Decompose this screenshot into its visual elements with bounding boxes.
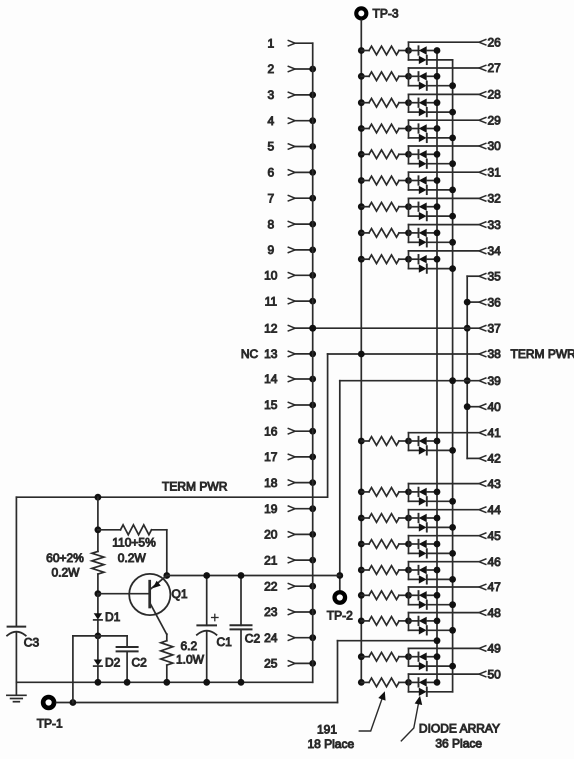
junction: ground rail xyxy=(203,679,210,686)
terminator row pin 30 xyxy=(358,146,479,168)
svg-text:39: 39 xyxy=(488,374,502,388)
diode (upper) row 43 xyxy=(409,491,418,493)
resistor 191 network, row 32 xyxy=(361,206,369,208)
svg-text:1: 1 xyxy=(267,36,274,50)
pin 19 (connector pin 19, left) xyxy=(264,502,316,516)
junction: lower rail row 32 xyxy=(449,213,456,220)
label DIODE ARRAY 36 Place callout xyxy=(401,700,500,751)
diode (lower) row 29 xyxy=(409,137,419,139)
svg-text:32: 32 xyxy=(488,192,502,206)
junction: ground rail xyxy=(163,679,170,686)
svg-text:27: 27 xyxy=(488,61,502,75)
resistor 191 network, row 50 xyxy=(361,681,369,683)
junction: ground rail xyxy=(95,679,102,686)
junction: upper rail row 46 xyxy=(434,567,441,574)
wire: pin 12 to pin 37 ground link xyxy=(295,327,479,329)
pin 45 (connector pin 45, right) xyxy=(479,529,501,543)
svg-text:41: 41 xyxy=(488,426,502,440)
resistor 191 network, row 28 xyxy=(361,102,369,104)
junction: lower rail row 44 xyxy=(449,524,456,531)
junction: TP-1 run / D1-D2 branch xyxy=(70,699,77,706)
wire: node to pin 26 xyxy=(409,41,480,43)
svg-text:D1: D1 xyxy=(105,610,121,624)
svg-text:6: 6 xyxy=(267,166,274,180)
svg-text:23: 23 xyxy=(264,605,278,619)
transistor Q1 (PNP) xyxy=(98,574,188,635)
svg-text:46: 46 xyxy=(488,555,502,569)
capacitor C3 xyxy=(7,497,39,682)
svg-text:17: 17 xyxy=(264,450,278,464)
wire: regulator output line xyxy=(167,575,340,577)
diode (upper) row 33 xyxy=(409,232,418,234)
pin 20 (connector pin 20, left) xyxy=(264,528,316,542)
terminator row pin 34 xyxy=(358,251,479,273)
junction: lower rail row 28 xyxy=(449,109,456,116)
wire: node to pin 34 xyxy=(409,250,480,252)
svg-text:0.2W: 0.2W xyxy=(118,551,147,565)
terminator row pin 47 xyxy=(358,587,479,609)
capacitor C2 (left) xyxy=(117,636,148,682)
junction: lower rail / pin 39 xyxy=(449,377,456,384)
svg-text:35: 35 xyxy=(488,269,502,283)
svg-text:31: 31 xyxy=(488,165,502,179)
svg-text:4: 4 xyxy=(267,114,274,128)
pin 4 (connector pin 4, left) xyxy=(267,114,316,128)
wire: pin 39 to TP-2 branch xyxy=(340,380,479,382)
diode (lower) row 33 xyxy=(409,241,419,243)
diode (upper) row 28 xyxy=(409,102,418,104)
wire: resistor to base node xyxy=(97,574,99,594)
node: terminator node row 27 xyxy=(405,73,412,80)
wire: node to pin 33 xyxy=(409,224,480,226)
wire: node to pin 27 xyxy=(409,67,480,69)
pin 42 (connector pin 42, right) xyxy=(479,452,501,466)
pin 17 (connector pin 17, left) xyxy=(264,450,316,464)
pin 35 (connector pin 35, right) xyxy=(479,269,501,283)
pin 30 (connector pin 30, right) xyxy=(479,139,501,153)
wire: TERM PWR drop to regulator xyxy=(16,354,327,497)
wire: node to pin 43 xyxy=(409,483,480,485)
svg-text:36: 36 xyxy=(488,295,502,309)
resistor 191 network, row 26 xyxy=(361,50,369,52)
junction: emitter/output node xyxy=(163,572,170,579)
wire: ground run riser xyxy=(337,641,339,703)
test point TP-3 xyxy=(356,7,399,21)
junction: upper rail row 26 xyxy=(434,47,441,54)
diode (lower) row 47 xyxy=(409,604,419,606)
junction: diode rail / ground run xyxy=(434,637,441,644)
diode (upper) row 34 xyxy=(409,258,418,260)
junction: lower rail row 41 xyxy=(449,447,456,454)
terminator row pin 50 xyxy=(358,674,479,696)
leader arrowhead to diode array xyxy=(416,697,422,704)
junction: TERM PWR feed bus / pin 38 xyxy=(358,351,365,358)
junction: lower rail row 47 xyxy=(449,601,456,608)
terminator row pin 26 xyxy=(358,42,479,64)
wire: D1-D2 junction to TP-1 run xyxy=(72,636,74,703)
svg-text:60+2%: 60+2% xyxy=(46,551,84,565)
pin 9 (connector pin 9, left) xyxy=(267,243,316,257)
pin 22 (connector pin 22, left) xyxy=(264,579,316,593)
node: terminator node row 43 xyxy=(405,489,412,496)
pin 38 (connector pin 38, right) xyxy=(479,347,574,361)
junction: bus / pin 40 xyxy=(464,403,471,410)
resistor 191 network, row 27 xyxy=(361,75,369,77)
svg-text:5: 5 xyxy=(267,140,274,154)
resistor 6.2 1.0W xyxy=(161,634,205,682)
wire: pin 40 stub xyxy=(467,406,479,408)
junction: upper rail row 29 xyxy=(434,125,441,132)
svg-text:45: 45 xyxy=(488,529,502,543)
junction: feed bus row 49 xyxy=(358,653,365,660)
pin 24 (connector pin 24, left) xyxy=(264,631,316,645)
resistor 191 network, row 29 xyxy=(361,128,369,130)
svg-text:TP-2: TP-2 xyxy=(327,609,353,623)
pin 14 (connector pin 14, left) xyxy=(264,372,316,386)
junction: D1/D2 node xyxy=(95,633,102,640)
junction: regulator output / TP-2 branch xyxy=(336,572,343,579)
resistor 191 network, row 45 xyxy=(361,543,369,545)
node: terminator node row 33 xyxy=(405,230,412,237)
diode (lower) row 31 xyxy=(409,189,419,191)
capacitor C1 (polarized) xyxy=(197,576,232,683)
pin 28 (connector pin 28, right) xyxy=(479,88,501,102)
svg-text:43: 43 xyxy=(488,477,502,491)
node: terminator node row 26 xyxy=(405,47,412,54)
svg-text:NC: NC xyxy=(241,347,259,361)
junction: 110 ohm branch xyxy=(95,526,102,533)
svg-text:22: 22 xyxy=(264,579,278,593)
svg-text:DIODE ARRAY: DIODE ARRAY xyxy=(419,722,500,736)
junction: upper rail row 28 xyxy=(434,99,441,106)
svg-text:44: 44 xyxy=(488,503,502,517)
diode (upper) row 30 xyxy=(409,153,418,155)
node: terminator node row 31 xyxy=(405,177,412,184)
junction: lower rail row 43 xyxy=(449,498,456,505)
pin 37 (connector pin 37, right) xyxy=(479,321,501,335)
svg-text:38: 38 xyxy=(488,347,502,361)
junction: feed bus row 47 xyxy=(358,592,365,599)
pin 48 (connector pin 48, right) xyxy=(479,606,501,620)
junction: upper rail row 47 xyxy=(434,592,441,599)
diode (lower) row 50 xyxy=(409,691,419,693)
test point TP-1 xyxy=(37,697,63,731)
svg-text:11: 11 xyxy=(265,294,278,308)
wire: pin 35 stub xyxy=(467,275,479,277)
wire: node to pin 48 xyxy=(409,612,480,614)
svg-text:36 Place: 36 Place xyxy=(435,737,482,751)
wire: TP-1 ground run xyxy=(56,702,337,704)
pin 46 (connector pin 46, right) xyxy=(479,555,501,569)
svg-text:48: 48 xyxy=(488,606,502,620)
pin 6 (connector pin 6, left) xyxy=(267,166,316,180)
svg-text:Q1: Q1 xyxy=(172,587,188,601)
junction: lower rail row 45 xyxy=(449,550,456,557)
junction: upper rail row 30 xyxy=(434,151,441,158)
wire: pin 36 stub xyxy=(467,301,479,303)
terminator row pin 28 xyxy=(358,94,479,116)
terminator row pin 31 xyxy=(358,172,479,194)
terminator row pin 29 xyxy=(358,120,479,142)
pin 33 (connector pin 33, right) xyxy=(479,218,501,232)
leader arrowhead to resistor network xyxy=(379,692,385,700)
svg-text:3: 3 xyxy=(267,88,274,102)
junction: feed bus row 45 xyxy=(358,541,365,548)
svg-text:24: 24 xyxy=(264,631,278,645)
resistor 191 network, row 49 xyxy=(361,656,369,658)
pin 16 (connector pin 16, left) xyxy=(264,424,316,438)
junction: upper rail row 27 xyxy=(434,73,441,80)
wire: 110 ohm to emitter node xyxy=(166,530,168,576)
diode (lower) row 32 xyxy=(409,215,419,217)
terminator row pin 43 xyxy=(358,484,479,506)
svg-text:42: 42 xyxy=(488,452,502,466)
wire: pin 42 stub xyxy=(467,457,479,459)
junction: feed bus row 31 xyxy=(358,177,365,184)
junction: feed bus row 27 xyxy=(358,73,365,80)
resistor 110+5% 0.2W xyxy=(98,525,167,565)
node: terminator node row 29 xyxy=(405,125,412,132)
wire: node to pin 44 xyxy=(409,509,480,511)
node: terminator node row 46 xyxy=(405,567,412,574)
pin 13 (connector pin 13, left) xyxy=(241,347,316,361)
wire: divider branch vertical xyxy=(97,497,99,551)
svg-text:TERM PWR: TERM PWR xyxy=(511,347,574,361)
diode (lower) row 45 xyxy=(409,552,419,554)
wire: D1 to junction xyxy=(97,620,99,636)
terminator row pin 48 xyxy=(358,613,479,635)
pin 21 (connector pin 21, left) xyxy=(264,553,316,567)
diode (upper) row 26 xyxy=(409,50,418,52)
wire: D2 to ground rail xyxy=(97,666,99,682)
resistor 191 network, row 46 xyxy=(361,569,369,571)
svg-text:14: 14 xyxy=(264,372,278,386)
diode D1 xyxy=(94,594,121,624)
pin 1 (connector pin 1, left) xyxy=(267,36,312,50)
junction: output / C1 xyxy=(203,572,210,579)
junction: lower rail row 29 xyxy=(449,135,456,142)
node: terminator node row 49 xyxy=(405,653,412,660)
svg-text:1.0W: 1.0W xyxy=(176,653,205,667)
svg-text:7: 7 xyxy=(267,191,274,205)
junction: lower rail row 31 xyxy=(449,187,456,194)
pin 26 (connector pin 26, right) xyxy=(479,35,501,49)
svg-text:2: 2 xyxy=(267,62,274,76)
diode (lower) row 48 xyxy=(409,629,419,631)
svg-text:20: 20 xyxy=(264,528,278,542)
junction: upper rail row 33 xyxy=(434,230,441,237)
svg-text:18: 18 xyxy=(264,476,278,490)
junction: ground rail xyxy=(124,679,131,686)
diode (upper) row 29 xyxy=(409,128,418,130)
diode D2 xyxy=(94,636,121,670)
wire: node to pin 28 xyxy=(409,93,480,95)
diode (upper) row 27 xyxy=(409,75,418,77)
svg-text:D2: D2 xyxy=(105,656,121,670)
svg-text:50: 50 xyxy=(488,667,502,681)
junction: feed bus row 50 xyxy=(358,679,365,686)
junction: upper rail row 49 xyxy=(434,653,441,660)
diode (lower) row 27 xyxy=(409,85,419,87)
pin 23 (connector pin 23, left) xyxy=(264,605,316,619)
diode (lower) row 43 xyxy=(409,500,419,502)
resistor 191 network, row 41 xyxy=(361,440,369,442)
terminator row pin 33 xyxy=(358,225,479,247)
diode (upper) row 50 xyxy=(409,681,418,683)
svg-text:0.2W: 0.2W xyxy=(51,565,80,579)
junction: bus / pin 36 xyxy=(464,299,471,306)
node: terminator node row 34 xyxy=(405,256,412,263)
pin 3 (connector pin 3, left) xyxy=(267,88,316,102)
svg-text:191: 191 xyxy=(317,723,337,737)
svg-text:110+5%: 110+5% xyxy=(112,535,156,549)
junction: feed bus row 32 xyxy=(358,203,365,210)
svg-text:6.2: 6.2 xyxy=(181,639,198,653)
junction: feed bus row 34 xyxy=(358,256,365,263)
wire: node to pin 49 xyxy=(409,647,480,649)
resistor 191 network, row 34 xyxy=(361,258,369,260)
svg-text:C2: C2 xyxy=(245,631,261,645)
pin 29 (connector pin 29, right) xyxy=(479,113,501,127)
resistor 191 network, row 33 xyxy=(361,232,369,234)
junction: feed bus row 26 xyxy=(358,47,365,54)
junction: bus / pin 39 xyxy=(464,377,471,384)
node: terminator node row 30 xyxy=(405,151,412,158)
resistor 191 network, row 44 xyxy=(361,517,369,519)
junction: ground rail xyxy=(238,679,245,686)
diode (upper) row 46 xyxy=(409,569,418,571)
diode (upper) row 41 xyxy=(409,440,418,442)
wire: diode array rail (lower diodes) xyxy=(452,60,454,692)
wire: node to pin 29 xyxy=(409,119,480,121)
svg-text:28: 28 xyxy=(488,88,502,102)
svg-text:34: 34 xyxy=(488,244,502,258)
node: terminator node row 32 xyxy=(405,203,412,210)
junction: feed bus row 46 xyxy=(358,567,365,574)
svg-text:47: 47 xyxy=(488,580,502,594)
capacitor C2 (right) xyxy=(231,576,261,683)
pin 11 (connector pin 11, left) xyxy=(265,294,317,308)
junction: feed bus row 41 xyxy=(358,438,365,445)
svg-text:29: 29 xyxy=(488,113,502,127)
junction: feed bus row 28 xyxy=(358,99,365,106)
svg-text:TP-1: TP-1 xyxy=(37,717,63,731)
pin 50 (connector pin 50, right) xyxy=(479,667,501,681)
diode (lower) row 30 xyxy=(409,163,419,165)
svg-text:21: 21 xyxy=(264,553,278,567)
svg-text:49: 49 xyxy=(488,642,502,656)
diode (lower) row 46 xyxy=(409,578,419,580)
svg-text:16: 16 xyxy=(264,424,278,438)
svg-text:TP-3: TP-3 xyxy=(373,7,399,21)
svg-text:19: 19 xyxy=(264,502,278,516)
resistor 191 network, row 31 xyxy=(361,180,369,182)
wire: right ground bus pins 35-42 xyxy=(466,276,468,458)
junction: lower rail row 27 xyxy=(449,82,456,89)
junction: upper rail row 41 xyxy=(434,438,441,445)
junction: feed bus row 33 xyxy=(358,230,365,237)
resistor 191 network, row 43 xyxy=(361,491,369,493)
pin 32 (connector pin 32, right) xyxy=(479,192,501,206)
junction: lower rail row 48 xyxy=(449,627,456,634)
diode (upper) row 45 xyxy=(409,543,418,545)
junction: output / C2 xyxy=(238,572,245,579)
test point TP-2 xyxy=(327,592,353,622)
diode (upper) row 31 xyxy=(409,180,418,182)
wire: TERM PWR feed bus from TP-3 xyxy=(360,20,362,682)
svg-text:8: 8 xyxy=(267,217,274,231)
junction: upper rail row 32 xyxy=(434,203,441,210)
terminator row pin 49 xyxy=(358,648,479,670)
pin 39 (connector pin 39, right) xyxy=(479,374,501,388)
node: terminator node row 50 xyxy=(405,679,412,686)
wire: pin 38 TERM PWR line xyxy=(328,353,479,355)
wire: node to pin 32 xyxy=(409,197,480,199)
pin 43 (connector pin 43, right) xyxy=(479,477,501,491)
svg-text:25: 25 xyxy=(264,657,278,671)
pin 34 (connector pin 34, right) xyxy=(479,244,501,258)
pin 36 (connector pin 36, right) xyxy=(479,295,501,309)
wire: diode array rail (upper diodes) xyxy=(436,51,438,683)
junction: feed bus row 44 xyxy=(358,515,365,522)
wire: ground run to diode rail xyxy=(338,640,438,642)
wire: D1-D2 junction bar xyxy=(73,635,127,637)
svg-text:13: 13 xyxy=(264,347,278,361)
node: terminator node row 47 xyxy=(405,592,412,599)
wire: TP-2 vertical xyxy=(339,381,341,591)
junction: left bus / pin12-37 link xyxy=(309,325,316,332)
junction: feed bus row 30 xyxy=(358,151,365,158)
terminator row pin 44 xyxy=(358,510,479,532)
junction: upper rail row 48 xyxy=(434,618,441,625)
wire: node to pin 45 xyxy=(409,535,480,537)
wire: node to pin 47 xyxy=(409,586,480,588)
diode (upper) row 44 xyxy=(409,517,418,519)
svg-text:15: 15 xyxy=(264,398,278,412)
terminator row pin 27 xyxy=(358,68,479,90)
diode (lower) row 28 xyxy=(409,111,419,113)
svg-text:9: 9 xyxy=(267,243,274,257)
svg-text:C1: C1 xyxy=(217,635,233,649)
junction: lower rail row 46 xyxy=(449,576,456,583)
svg-text:26: 26 xyxy=(488,35,502,49)
resistor 191 network, row 47 xyxy=(361,594,369,596)
junction: upper rail row 31 xyxy=(434,177,441,184)
pin 41 (connector pin 41, right) xyxy=(479,426,501,440)
junction: upper rail row 50 xyxy=(434,679,441,686)
pin 18 (connector pin 18, left) xyxy=(264,476,316,490)
svg-text:12: 12 xyxy=(264,321,278,335)
junction: bus / pin 37 xyxy=(464,325,471,332)
pin 47 (connector pin 47, right) xyxy=(479,580,501,594)
svg-text:37: 37 xyxy=(488,321,502,335)
diode (upper) row 32 xyxy=(409,206,418,208)
node: terminator node row 44 xyxy=(405,515,412,522)
junction: feed bus row 48 xyxy=(358,618,365,625)
wire: node to pin 31 xyxy=(409,171,480,173)
svg-text:C3: C3 xyxy=(24,636,40,650)
svg-text:TERM PWR: TERM PWR xyxy=(162,480,228,494)
diode (lower) row 41 xyxy=(409,449,419,451)
diode (lower) row 44 xyxy=(409,526,419,528)
svg-text:40: 40 xyxy=(488,400,502,414)
junction: upper rail row 43 xyxy=(434,489,441,496)
pin 31 (connector pin 31, right) xyxy=(479,165,501,179)
pin 40 (connector pin 40, right) xyxy=(479,400,501,414)
wire: node to pin 46 xyxy=(409,561,480,563)
pin 15 (connector pin 15, left) xyxy=(264,398,316,412)
junction: feed bus row 43 xyxy=(358,489,365,496)
